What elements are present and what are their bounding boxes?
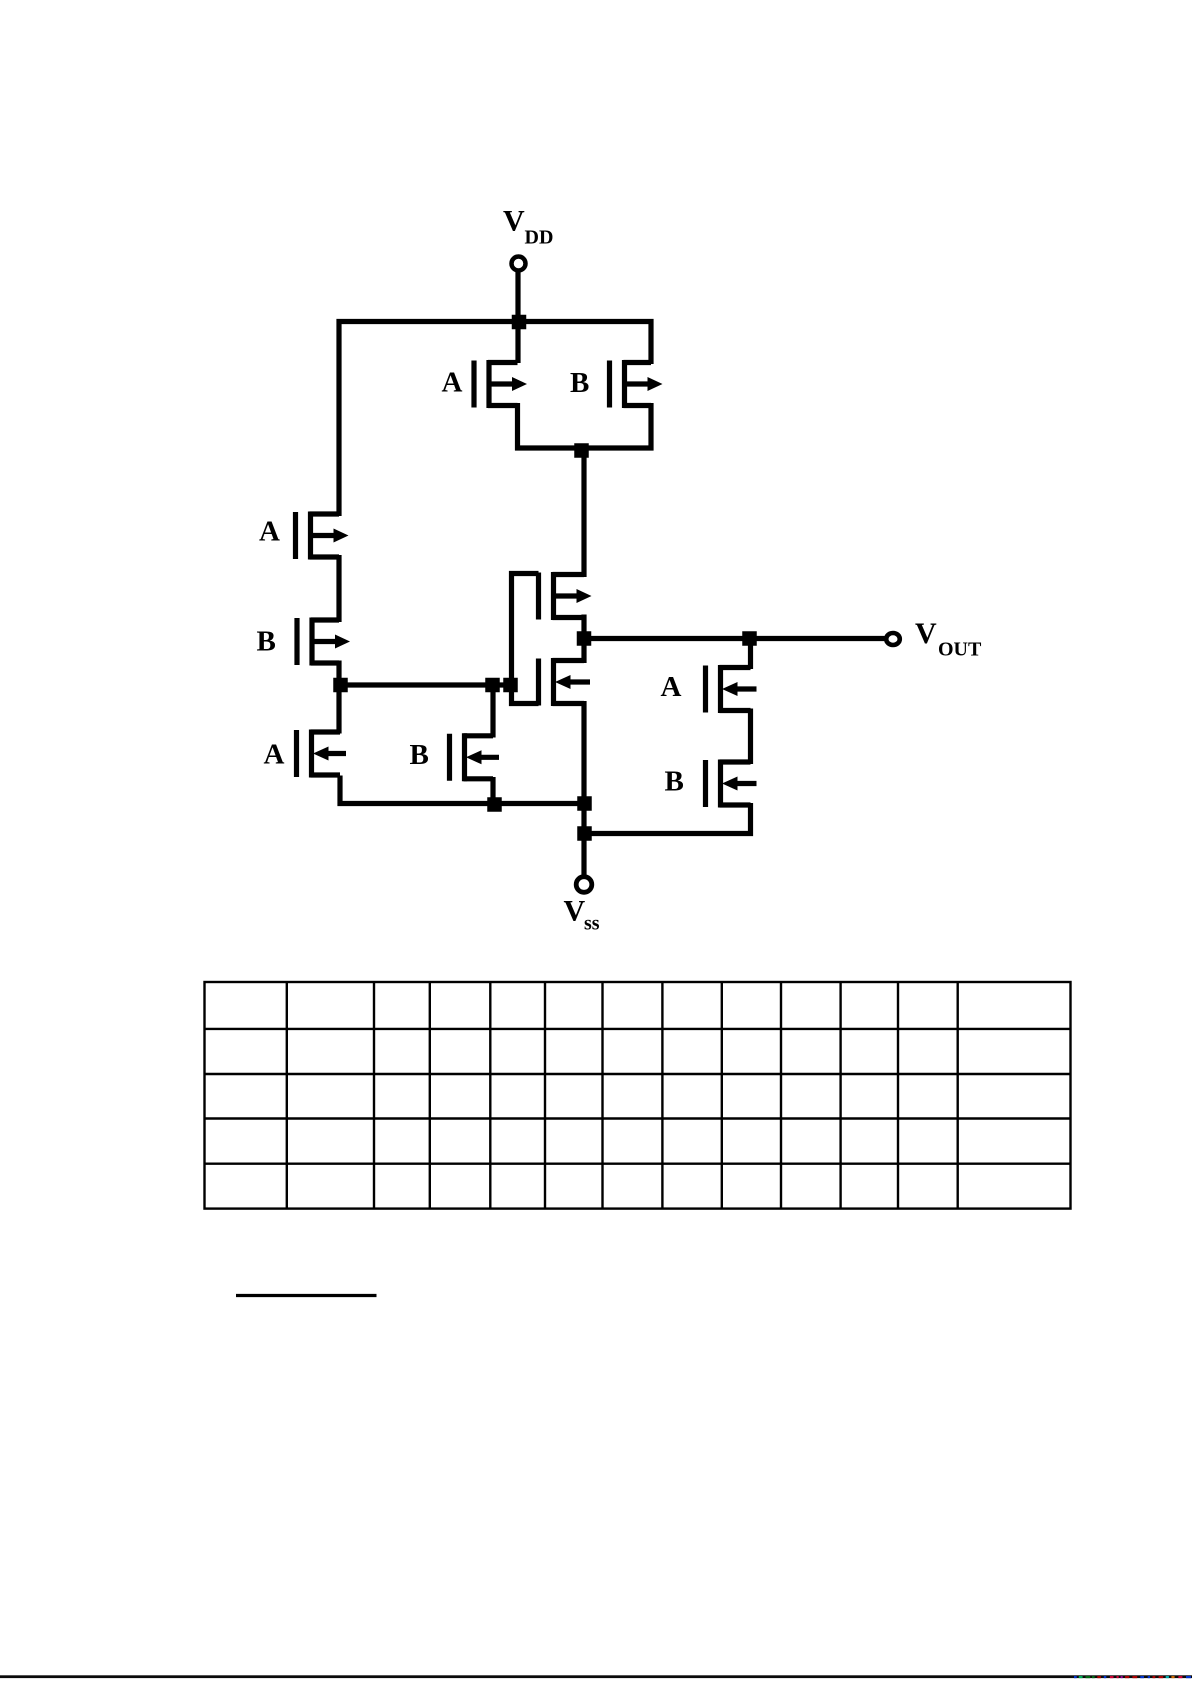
node VSS left rail [577, 796, 592, 811]
transistor B right-chain NMOS [706, 760, 757, 808]
svg-text:A: A [442, 367, 463, 399]
svg-text:OUT: OUT [938, 639, 982, 661]
transistor A left-chain PMOS [296, 512, 349, 560]
node input to inverter gates [503, 678, 518, 693]
svg-text:V: V [503, 205, 525, 238]
transistor A bottom-left NMOS [297, 730, 347, 778]
node VOUT at inverter [577, 631, 592, 646]
wire VDD drop to top rail and PMOS A drain [515, 271, 520, 363]
transistor output inverter upper PMOS [539, 572, 592, 620]
wire inverter source to VSS [581, 701, 586, 875]
wire right chain bottom rail [582, 803, 751, 834]
wire bottom-mid B source drop [490, 777, 495, 804]
node left junction [333, 678, 348, 693]
wire chain vertical upper [581, 448, 586, 577]
svg-text:A: A [661, 671, 682, 703]
wire input net horizontal [339, 682, 512, 687]
transistor B left-chain PMOS [297, 618, 350, 666]
svg-text:A: A [259, 516, 280, 548]
wire gate bracket of output inverter [512, 574, 539, 704]
svg-text:B: B [257, 626, 276, 658]
scan colour noise [1074, 1676, 1191, 1678]
node pair output [574, 443, 589, 458]
node VOUT right-chain tap [742, 631, 757, 646]
wire B source drop [648, 403, 653, 451]
transistor A right-chain NMOS [706, 665, 757, 713]
svg-text:ss: ss [584, 913, 600, 935]
svg-text:A: A [264, 739, 285, 771]
wire inverter common node [581, 615, 586, 664]
VSS terminal [576, 877, 592, 893]
transistor B bottom-middle NMOS [450, 733, 500, 781]
svg-text:B: B [665, 766, 684, 798]
wire between left A and B [336, 555, 341, 622]
wire VOUT horizontal [584, 636, 887, 641]
svg-text:B: B [570, 367, 589, 399]
wire left B to junction to bottom A [336, 661, 341, 734]
VDD terminal [512, 257, 526, 271]
svg-text:DD: DD [525, 227, 554, 249]
wire top rail with left and right drops [339, 322, 651, 517]
wire bottom-left rail [340, 776, 586, 804]
wire pair bottom rail [515, 445, 654, 450]
svg-text:V: V [564, 895, 586, 928]
wire right A to B [748, 709, 753, 765]
svg-text:B: B [410, 739, 429, 771]
node VDD junction [512, 315, 527, 330]
svg-text:V: V [915, 617, 937, 650]
node input to B drain [485, 678, 500, 693]
transistor output inverter lower NMOS [539, 658, 591, 706]
node VSS right rail [577, 826, 592, 841]
wire A source drop [515, 403, 520, 451]
transistor A top-pair PMOS [474, 360, 527, 408]
VOUT terminal [886, 633, 900, 645]
page bottom rule [0, 1675, 1192, 1678]
wire right chain drop [748, 639, 753, 670]
answer blank underline [236, 1294, 377, 1297]
node B source on rail [487, 797, 502, 812]
transistor B top-pair PMOS [610, 360, 663, 408]
wire bottom-mid B gate-node drop [490, 685, 495, 738]
truth table grid [205, 982, 1071, 1209]
